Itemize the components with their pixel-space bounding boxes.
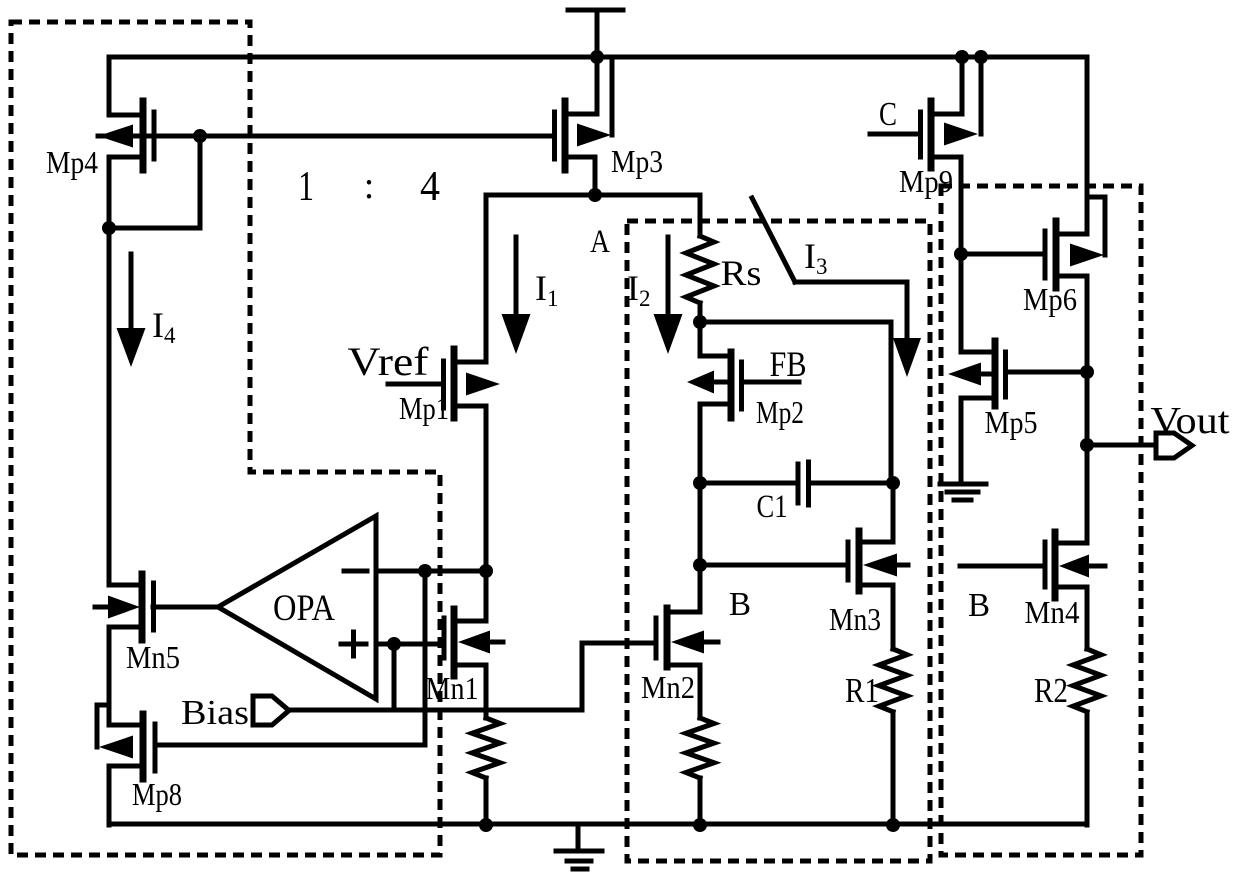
port Vout [1156, 433, 1192, 458]
svg-text:B: B [968, 587, 990, 624]
svg-text:Mp6: Mp6 [1023, 281, 1077, 317]
wire Mp8 gate to minus net [155, 571, 425, 745]
wire I3 path [795, 282, 907, 340]
wire node A horizontal [486, 193, 700, 198]
svg-text:C: C [879, 96, 897, 133]
svg-text:4: 4 [420, 164, 440, 210]
node Mp9 drain junction [954, 247, 968, 261]
transistor Mp4 [98, 57, 200, 228]
svg-text:Vref: Vref [348, 339, 430, 384]
svg-text:R1: R1 [845, 671, 879, 710]
resistor R1 [879, 649, 907, 825]
node Rs bottom junction [693, 315, 707, 329]
wire VDD rail right leg down to Mp6 [1085, 57, 1090, 234]
transistor Mn4 [960, 532, 1105, 649]
svg-text:Mn1: Mn1 [426, 670, 479, 706]
svg-text:Mp9: Mp9 [899, 163, 953, 199]
dashed box 2 (current sense block outline) [627, 221, 930, 861]
svg-text:Mp2: Mp2 [756, 394, 804, 430]
node minus-Mn1 junction [479, 564, 493, 578]
wire Mn3 gate net [700, 483, 848, 565]
svg-text:Mn4: Mn4 [1025, 594, 1080, 630]
transistor Mn5 [95, 574, 154, 705]
wire Bias net [289, 643, 656, 710]
current arrow I2 [654, 237, 683, 354]
current arrow I3 head [893, 338, 921, 377]
capacitor C1 [700, 462, 893, 505]
svg-text:1: 1 [298, 164, 314, 210]
ground rail wire [109, 822, 1087, 827]
svg-text:A: A [590, 224, 610, 260]
wire I4 branch (Mp4 drain down to Mn5) [107, 228, 112, 585]
current arrow I1 [502, 237, 531, 354]
wire Rs bottom to FB sense leg [700, 322, 891, 483]
ground symbol [556, 824, 602, 869]
power supply symbol [568, 10, 623, 57]
wire OPA minus input net [376, 569, 486, 574]
dashed box 1 (bias/OPA block outline, L-shaped) [11, 22, 440, 855]
svg-text:Mn2: Mn2 [641, 669, 695, 705]
node VDD-Mp9 source junction [955, 50, 969, 64]
transistor Mp9 [870, 57, 981, 254]
wire plus input to Bias rail [392, 644, 397, 710]
wire to Vout port [1087, 443, 1155, 448]
svg-text::: : [364, 165, 375, 207]
wire OPA output to Mn5 gate [153, 605, 218, 610]
svg-text:Mn3: Mn3 [829, 601, 881, 637]
svg-text:OPA: OPA [273, 588, 335, 629]
svg-text:R2: R2 [1034, 671, 1068, 710]
VDD rail wire [109, 55, 1087, 60]
OPA plus input sign [341, 632, 366, 656]
svg-text:Mp3: Mp3 [611, 143, 663, 179]
resistor R2 [1073, 649, 1101, 825]
ground symbol (Mp5 source) [940, 484, 986, 500]
node minus-Mp8 junction [418, 564, 432, 578]
transistor Mn2 [656, 565, 718, 718]
svg-text:Mp4: Mp4 [46, 144, 98, 180]
svg-text:Bias: Bias [181, 693, 249, 732]
node Mn2 ground junction [693, 818, 707, 832]
dashed box 3 (output stage block outline) [941, 186, 1141, 855]
current arrow I4 [117, 254, 146, 367]
svg-text:Mp1: Mp1 [399, 390, 449, 426]
wire Mp4 gate bus to Mp3 [200, 134, 554, 139]
node Mn1 ground junction [479, 818, 493, 832]
node VDD-Mp9 bulk junction [974, 50, 988, 64]
node Mp4 drain junction [102, 221, 116, 235]
node VDD-Mp3 junction [590, 50, 604, 64]
transistor Mn3 [848, 483, 908, 649]
svg-text:C1: C1 [757, 489, 788, 525]
op-amp OPA [218, 516, 376, 699]
node Mn3 gate junction [693, 558, 707, 572]
node R1 ground junction [886, 818, 900, 832]
transistor Mp3 [555, 57, 613, 195]
node Mp4 gate-drain junction [193, 129, 207, 143]
transistor Mp6 [961, 197, 1105, 372]
svg-text:Rs: Rs [721, 253, 762, 293]
svg-text:Vout: Vout [1151, 400, 1230, 442]
node plus input junction [387, 637, 401, 651]
node C1 right junction [886, 476, 900, 490]
svg-text:FB: FB [770, 344, 807, 384]
wire Vout net [1085, 372, 1090, 543]
node Mp6 drain - Mp5 gate junction [1080, 365, 1094, 379]
transistor Mp1 [388, 349, 500, 571]
wire Mp4 diode connection [109, 136, 200, 228]
svg-text:B: B [729, 586, 751, 623]
OPA minus input sign [344, 569, 367, 574]
transistor Mp8 [97, 705, 155, 825]
node Vout junction [1080, 438, 1094, 452]
transistor Mn1 [444, 571, 503, 718]
transistor Mp2 [687, 322, 799, 483]
resistor below Mn1 [472, 718, 500, 825]
svg-text:Mp5: Mp5 [985, 404, 1038, 440]
resistor below Mn2 [686, 718, 714, 825]
label 1 : 4 [298, 164, 440, 210]
switch blade I3 [752, 198, 795, 282]
port Bias [253, 696, 289, 725]
wire node A left leg down to Mp1 [484, 195, 489, 362]
wire OPA plus input net [376, 642, 444, 647]
svg-text:Mn5: Mn5 [126, 639, 180, 675]
node A junction [588, 188, 602, 202]
transistor Mp5 [948, 254, 1087, 480]
resistor Rs [686, 195, 714, 322]
svg-text:Mp8: Mp8 [132, 776, 182, 812]
node C1 left junction [693, 476, 707, 490]
